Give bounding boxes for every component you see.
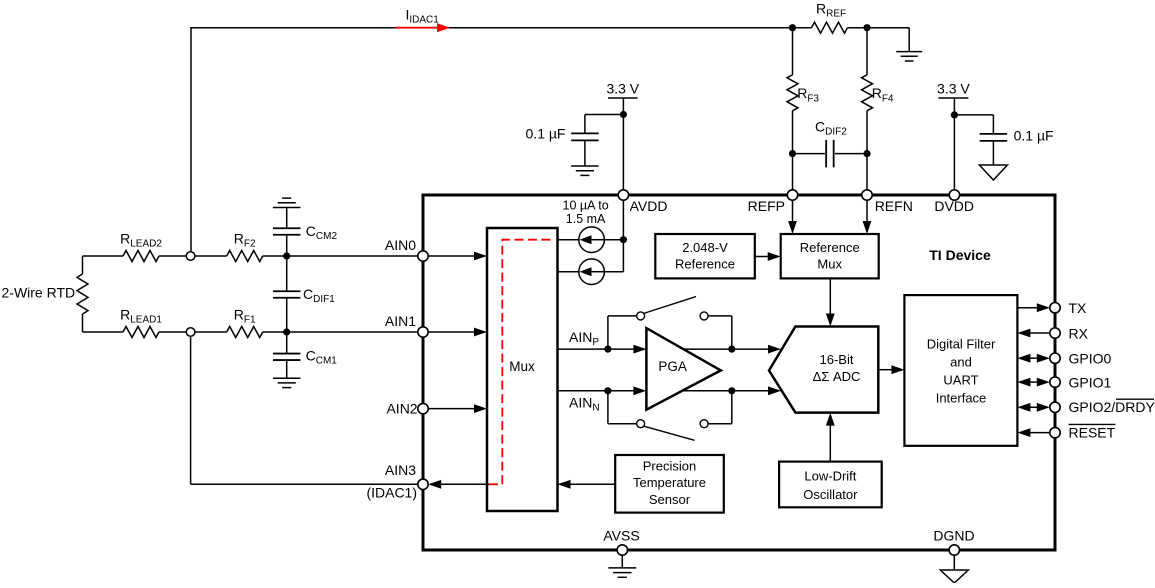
svg-text:2-Wire RTD: 2-Wire RTD [2,285,76,301]
svg-text:Digital Filter: Digital Filter [927,337,996,352]
svg-text:Low-Drift: Low-Drift [804,468,856,483]
svg-text:GPIO2/DRDY: GPIO2/DRDY [1069,399,1155,415]
svg-text:Reference: Reference [800,240,860,255]
svg-text:AVDD: AVDD [630,198,668,214]
svg-text:GPIO0: GPIO0 [1069,351,1112,367]
svg-text:16-Bit: 16-Bit [820,352,854,367]
svg-text:Mux: Mux [817,257,842,272]
svg-text:TX: TX [1069,300,1088,316]
svg-text:PGA: PGA [658,359,687,374]
svg-text:3.3 V: 3.3 V [937,80,970,96]
svg-text:and: and [950,355,972,370]
svg-text:(IDAC1): (IDAC1) [366,484,417,500]
svg-text:AVSS: AVSS [603,527,639,543]
svg-text:ΔΣ ADC: ΔΣ ADC [813,369,861,384]
svg-text:UART: UART [943,373,978,388]
svg-text:3.3 V: 3.3 V [606,80,639,96]
svg-text:Oscillator: Oscillator [803,487,858,502]
svg-text:RESET: RESET [1069,424,1116,440]
svg-text:Mux: Mux [509,359,535,374]
svg-text:TI Device: TI Device [929,247,991,263]
svg-text:AIN3: AIN3 [385,462,416,478]
svg-text:AIN2: AIN2 [386,401,417,417]
svg-text:0.1 µF: 0.1 µF [526,126,566,142]
svg-text:10 µA to: 10 µA to [563,199,609,213]
svg-text:DVDD: DVDD [934,198,974,214]
svg-text:Precision: Precision [643,459,696,474]
svg-text:Reference: Reference [675,257,735,272]
svg-text:1.5 mA: 1.5 mA [566,212,606,226]
svg-text:2.048-V: 2.048-V [682,240,728,255]
svg-text:Temperature: Temperature [633,475,706,490]
svg-text:RX: RX [1069,325,1089,341]
svg-text:Interface: Interface [936,391,987,406]
svg-text:AIN1: AIN1 [385,313,416,329]
svg-text:GPIO1: GPIO1 [1069,374,1112,390]
svg-text:Sensor: Sensor [649,492,691,507]
svg-text:0.1 µF: 0.1 µF [1014,128,1054,144]
svg-text:REFP: REFP [748,198,785,214]
svg-text:REFN: REFN [875,198,913,214]
svg-text:AIN0: AIN0 [385,237,416,253]
svg-text:DGND: DGND [933,527,974,543]
